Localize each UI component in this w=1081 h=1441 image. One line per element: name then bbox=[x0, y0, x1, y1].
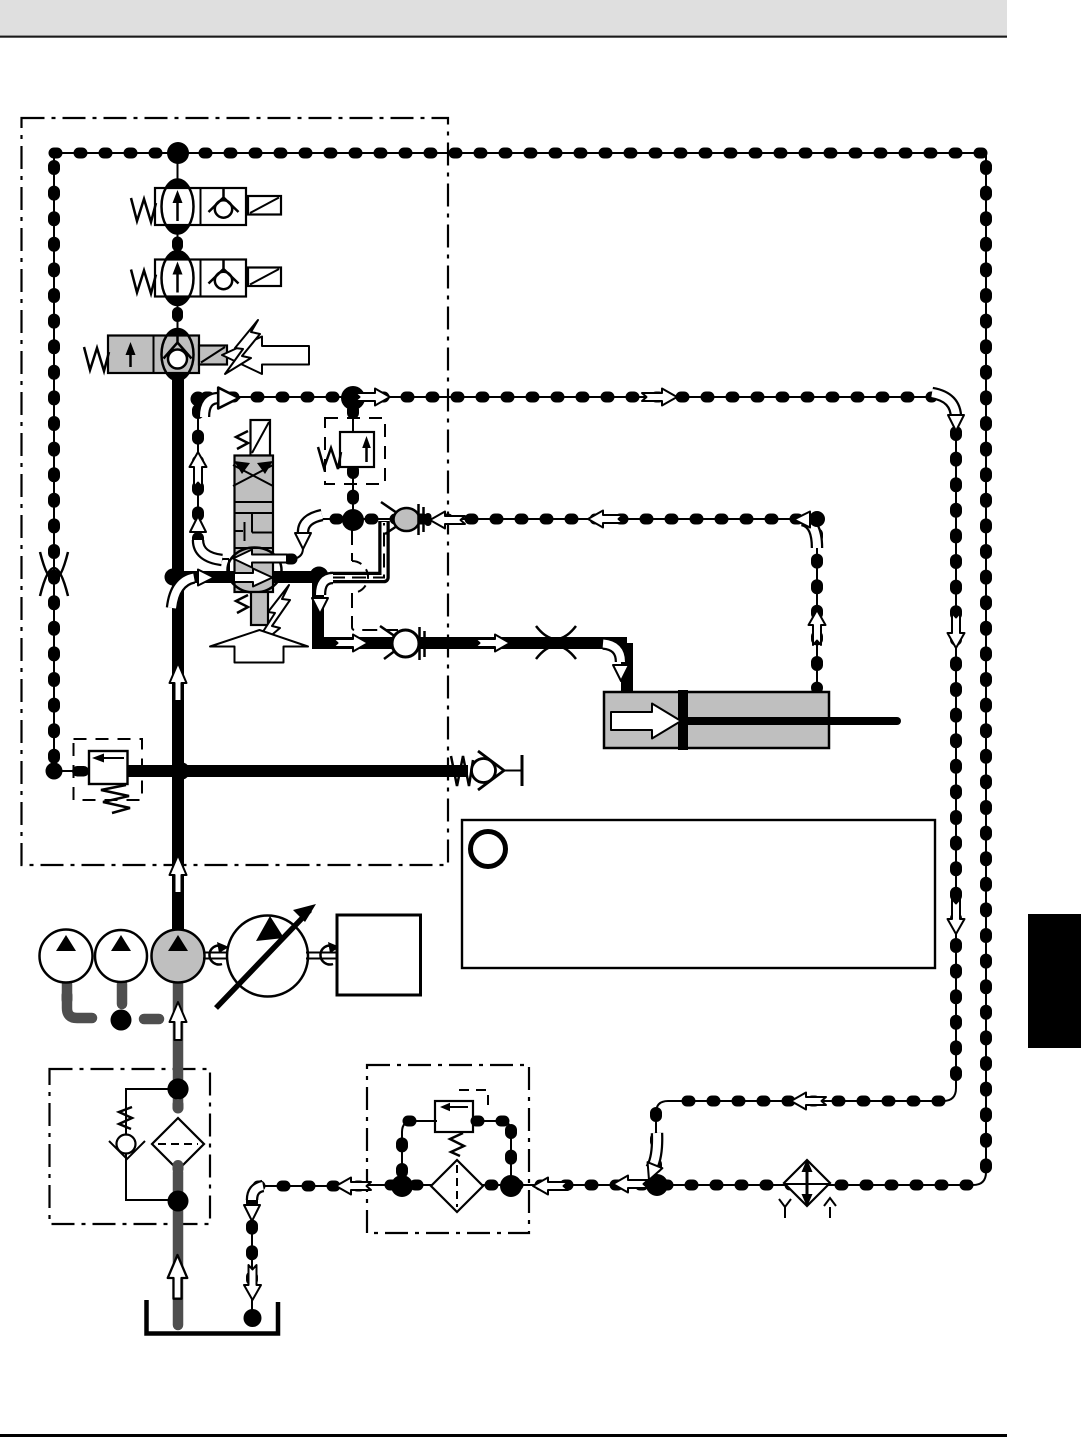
cylinder piston bbox=[678, 690, 688, 750]
main relief valve RV1 dashed enclosure bbox=[74, 739, 143, 800]
tank bbox=[147, 1300, 279, 1334]
junction riser/valve tee bbox=[165, 569, 182, 586]
pilot chain: relief pilot stub x353 bbox=[352, 399, 354, 512]
proportional valve PV solenoid top bbox=[236, 420, 270, 456]
flow arrow y397 after tee bbox=[355, 389, 390, 406]
junction relief pilot dot bbox=[342, 509, 364, 531]
node y519 corner dot bbox=[809, 511, 825, 527]
enclosure return filter (dash-dot) bbox=[367, 1065, 529, 1233]
header bar bbox=[0, 0, 1007, 35]
enclosure suction filter (dash-dot) bbox=[50, 1069, 211, 1224]
lightning bolt V3 bbox=[225, 320, 260, 374]
flow arrow y397 corner down bbox=[932, 393, 964, 431]
suction through filter (dark) bbox=[173, 1094, 184, 1325]
energize arrow V3 bbox=[222, 337, 309, 375]
pump2 drain dot bbox=[111, 1010, 132, 1031]
PV flow arrow A (left) bbox=[233, 550, 287, 568]
pilot chain: valve pilot header y397 bbox=[198, 397, 956, 420]
shaft P4 to motor bbox=[306, 953, 337, 959]
flow arrow valve corner down bbox=[312, 578, 333, 614]
pilot chain: return line to filter bbox=[368, 1184, 973, 1186]
page tab bbox=[1028, 914, 1081, 1048]
junction relief tee top dot bbox=[341, 386, 365, 410]
pilot arrow x198 corner up bbox=[190, 516, 222, 560]
variable displacement pump P4 bbox=[216, 904, 316, 1008]
F2 pilot chain left bbox=[402, 1121, 437, 1177]
PV flow arrow B (right) bbox=[234, 569, 273, 587]
coupling rotation symbol right bbox=[320, 942, 340, 965]
solenoid cartridge valve V3 (energized, gray) bbox=[84, 329, 227, 380]
return arrow left #2 bbox=[533, 1178, 568, 1195]
pilot chain: y519 left to valve port bbox=[272, 519, 344, 559]
solenoid cartridge valve V1 bbox=[131, 180, 281, 234]
cylinder rod bbox=[688, 717, 897, 725]
solenoid cartridge valve V2 bbox=[131, 251, 281, 305]
main pressure riser (thick) bbox=[172, 376, 184, 930]
wire V1-V2 bbox=[177, 230, 179, 256]
flow arrow cylinder corner down bbox=[603, 644, 629, 682]
riser arrow #1 bbox=[170, 663, 187, 701]
suction filter F1 diamond bbox=[152, 1118, 204, 1170]
gauge arrow y519 #2 bbox=[588, 511, 623, 528]
junction pilot corner dot bbox=[191, 392, 206, 407]
node dot V1-V2 bbox=[172, 237, 183, 252]
PV proportional solenoid bottom bbox=[236, 592, 268, 625]
suction filter outlet dot bbox=[168, 1191, 189, 1212]
flow arrow y643 right bbox=[333, 635, 368, 652]
right drop arrow down #2 bbox=[948, 899, 965, 934]
tank corner arrow down bbox=[244, 1186, 263, 1221]
main relief valve RV1 bbox=[89, 751, 130, 813]
return filter F2 diamond bbox=[431, 1160, 483, 1212]
F2 junction dots bbox=[391, 1175, 413, 1197]
junction return merge dot bbox=[646, 1174, 668, 1196]
suction filter inlet dot bbox=[167, 1078, 188, 1099]
suction line pump 2 (dark) bbox=[117, 984, 128, 1004]
return arrow left #1 bbox=[613, 1176, 648, 1193]
air breather diamond bbox=[779, 1159, 836, 1218]
pilot chain: gauge line y519 right bbox=[362, 519, 817, 692]
dashed pilot to check valve bbox=[352, 530, 398, 630]
flow arrow y643 right #2 bbox=[475, 635, 510, 652]
restrictor on left pilot chain bbox=[40, 552, 68, 596]
F2 dashed pilot bracket bbox=[459, 1090, 488, 1112]
tank suction arrow bbox=[168, 1255, 188, 1299]
gauge arrow y519 corner bbox=[794, 512, 817, 549]
relief header line y771 (thick) bbox=[127, 765, 468, 777]
PV active position ring bbox=[228, 548, 282, 593]
wire junction to valve V1 bbox=[177, 155, 179, 182]
node dot V2-V3 bbox=[172, 307, 183, 322]
shaft P3 to variable pump bbox=[203, 953, 230, 959]
junction riser/relief tee bbox=[172, 762, 190, 780]
pump P3 (active, gray) bbox=[152, 930, 205, 983]
proportional valve PV body bbox=[233, 456, 273, 593]
tank drain arrow down bbox=[244, 1265, 261, 1300]
suction line pump 1 (dark) bbox=[67, 984, 92, 1018]
return arrow left #3 bbox=[336, 1178, 371, 1195]
junction left chain corner dot bbox=[46, 763, 63, 780]
coupling rotation symbol left bbox=[209, 942, 229, 965]
pilot chain: far right drop bbox=[973, 153, 986, 1185]
electric motor box bbox=[337, 915, 421, 995]
check coupling M2 (inline) bbox=[380, 626, 425, 660]
junction header tee dot bbox=[167, 142, 189, 164]
prop valve outlet to cylinder line (thick) bbox=[272, 571, 627, 694]
riser arrow #2 bbox=[170, 855, 187, 893]
pump feed arrow bbox=[170, 1002, 187, 1040]
pump P2 bbox=[95, 930, 147, 982]
anti-cavitation check CV1 on relief header bbox=[451, 751, 522, 790]
gauge arrow y519 #1 bbox=[430, 512, 465, 529]
PV lightning bolt bbox=[248, 585, 290, 655]
suction stub (dark) bbox=[144, 1014, 159, 1025]
F1 chain dots (gray) bbox=[173, 1099, 184, 1114]
right drop arrow down #1 bbox=[948, 613, 965, 648]
rod pilot arrow up bbox=[809, 610, 826, 645]
F2 bypass relief bbox=[435, 1101, 473, 1156]
note callout circle bbox=[471, 832, 506, 867]
pilot chain: relief tank link bbox=[54, 766, 90, 777]
pilot chain: pilot drop x198 bbox=[198, 408, 230, 572]
enclosure main manifold (dash-dot) bbox=[22, 118, 449, 865]
pilot chain: top header line bbox=[54, 152, 986, 154]
suction line pump 3 (dark) bbox=[173, 984, 184, 1085]
hollow port line valve B to gauge point bbox=[330, 521, 384, 578]
wire V2-V3 bbox=[177, 300, 179, 336]
pilot relief valve RV2 dashed enclosure bbox=[325, 418, 385, 484]
feed to prop valve (thick) bbox=[178, 571, 236, 583]
F1 bypass branch bbox=[126, 1089, 178, 1200]
pilot arrow y519 corner down bbox=[295, 515, 322, 549]
cylinder CYL body bbox=[604, 692, 829, 748]
pump P1 bbox=[40, 930, 93, 983]
merge corner arrow x656 bbox=[642, 1133, 663, 1183]
restrictor on cylinder line bbox=[536, 626, 576, 659]
pilot chain: return line filter to tank corner bbox=[252, 1186, 367, 1318]
crossover arrow y1101 left bbox=[791, 1093, 826, 1110]
cylinder stroke arrow bbox=[611, 704, 681, 739]
F2 pilot chain right bbox=[471, 1121, 511, 1177]
PV command arrow (up) bbox=[210, 630, 308, 663]
pilot arrow x198 up bbox=[190, 452, 207, 487]
flow arrow y397 #1 (curved corner) bbox=[204, 388, 239, 417]
F1 bypass spring bbox=[119, 1107, 132, 1129]
header rule bbox=[0, 36, 1007, 38]
footer rule bbox=[0, 1434, 1007, 1437]
suction dots pump1 bbox=[62, 990, 73, 1005]
test coupling M1 (gray) bbox=[381, 502, 432, 535]
F1 bypass check bbox=[109, 1135, 145, 1160]
note box bbox=[462, 820, 935, 968]
flow arrow riser to valve bbox=[172, 570, 214, 609]
pilot chain: y1101 crossover bbox=[656, 1101, 943, 1175]
pilot chain: right mid drop x956 bbox=[943, 420, 956, 1101]
junction tank drain dot bbox=[244, 1309, 262, 1327]
pilot chain: left drop bbox=[53, 153, 55, 771]
dashed crossing loop bbox=[352, 561, 368, 593]
flow arrow y397 #2 bbox=[642, 389, 677, 406]
pilot relief valve RV2 bbox=[318, 432, 374, 469]
junction valve corner dot bbox=[310, 567, 329, 586]
